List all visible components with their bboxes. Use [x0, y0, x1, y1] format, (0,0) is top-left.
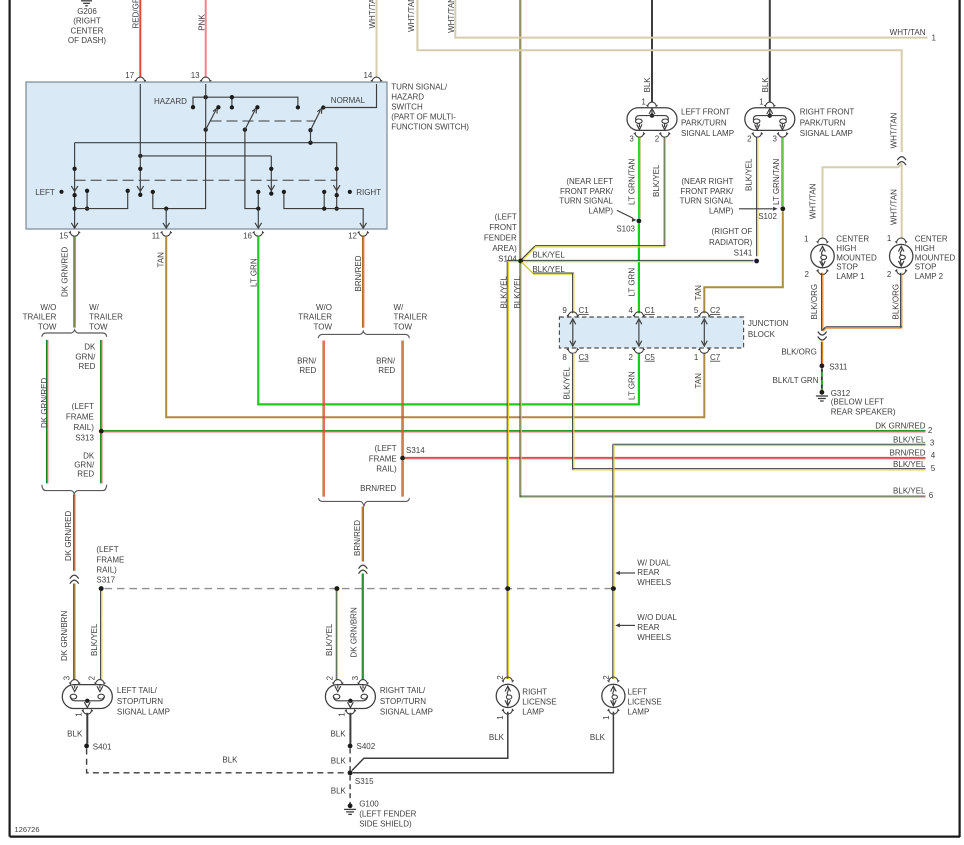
wire BLK/YEL S104 to S141	[523, 259, 754, 261]
wire LT GRN from S103 to junction block C1	[638, 223, 640, 313]
svg-text:LAMP 1: LAMP 1	[836, 272, 865, 281]
wire DK GRN/RED from pin 15	[73, 236, 75, 327]
svg-text:WHT/TAN: WHT/TAN	[890, 28, 926, 37]
wire BRN/RED combined lower	[361, 507, 363, 562]
svg-text:DK GRN/RED: DK GRN/RED	[40, 378, 49, 428]
normal contact wire to pin 14	[323, 84, 376, 108]
svg-text:TRAILER: TRAILER	[89, 313, 123, 322]
wire BRN/RED w/ trailer tow branch upper	[401, 341, 403, 457]
wire BLK/YEL S104 to junction block C1 pin9	[521, 261, 533, 273]
wire BRN/RED from pin 12	[362, 236, 364, 327]
svg-text:LEFT FRONT: LEFT FRONT	[681, 108, 730, 117]
svg-text:FRAME: FRAME	[369, 454, 397, 463]
svg-text:MOUNTED: MOUNTED	[915, 253, 956, 262]
wire BLK left tail to S401	[86, 713, 88, 744]
splice S311	[820, 363, 825, 368]
pin 17 pole column	[139, 84, 141, 195]
svg-text:BLK/YEL: BLK/YEL	[532, 251, 565, 260]
svg-text:JUNCTION: JUNCTION	[748, 319, 789, 328]
svg-text:LAMP: LAMP	[522, 707, 544, 716]
svg-text:GRN/: GRN/	[75, 352, 96, 361]
svg-text:14: 14	[363, 71, 372, 80]
svg-text:BLK/YEL: BLK/YEL	[652, 164, 661, 197]
svg-text:2: 2	[747, 134, 752, 143]
pin 15 pole column	[74, 143, 76, 229]
svg-text:(RIGHT: (RIGHT	[73, 17, 101, 26]
svg-text:RAIL): RAIL)	[73, 423, 94, 432]
wire BLK/ORG CHMSL1 down	[821, 273, 823, 331]
left contact group	[86, 191, 88, 209]
svg-text:5: 5	[694, 306, 699, 315]
ground G206	[81, 0, 92, 2]
wire DK GRN/RED combined lower	[73, 494, 75, 570]
svg-text:BLK: BLK	[761, 77, 770, 93]
svg-text:S313: S313	[75, 433, 94, 442]
wire PNK to pin 13	[205, 0, 207, 78]
w/o dual rear wheels option	[620, 624, 636, 626]
wire DK GRN/RED w/ trailer tow branch upper	[100, 340, 102, 429]
svg-text:1: 1	[759, 97, 764, 106]
svg-text:WHT/TAN: WHT/TAN	[809, 183, 818, 219]
svg-text:RAIL): RAIL)	[96, 565, 117, 574]
wire TAN from S102 to junction block C2	[704, 211, 783, 313]
hazard switch blade B	[243, 128, 247, 132]
svg-text:5: 5	[931, 464, 936, 473]
svg-text:(LEFT: (LEFT	[96, 545, 118, 554]
svg-text:FRONT: FRONT	[489, 223, 517, 232]
svg-text:9: 9	[562, 306, 567, 315]
svg-text:BLK: BLK	[330, 730, 346, 739]
svg-text:G100: G100	[359, 799, 379, 808]
svg-text:BRN/RED: BRN/RED	[360, 484, 396, 493]
svg-text:16: 16	[243, 232, 252, 241]
svg-text:PARK/TURN: PARK/TURN	[800, 118, 846, 127]
svg-text:BLK/YEL: BLK/YEL	[745, 158, 754, 191]
wire BLK/ORG to S311	[820, 342, 822, 364]
RIGHT TAIL/ connector arcs	[332, 680, 343, 684]
svg-text:S104: S104	[498, 255, 517, 264]
RIGHT FRONT bottom pins	[752, 133, 763, 137]
LEFT TAIL/ body	[62, 685, 112, 709]
wire BRN/RED w/ trailer tow branch lower	[401, 460, 403, 496]
svg-text:HIGH: HIGH	[836, 244, 856, 253]
LEFT FRONT bottom pins	[634, 133, 645, 137]
svg-text:C2: C2	[710, 306, 721, 315]
wire BLK right license to S315	[352, 712, 508, 771]
hazard bus	[193, 97, 298, 106]
switch row bus 1	[75, 142, 337, 144]
svg-text:1: 1	[804, 235, 809, 244]
wire BRN/RED circuit 4 to right edge	[405, 456, 926, 458]
svg-text:8: 8	[562, 353, 567, 362]
svg-text:PNK: PNK	[197, 14, 206, 31]
svg-text:BLK/YEL: BLK/YEL	[893, 436, 926, 445]
wire WHT/TAN to pin 14	[376, 0, 378, 78]
svg-text:SWITCH: SWITCH	[391, 102, 423, 111]
svg-text:SIGNAL LAMP: SIGNAL LAMP	[117, 708, 170, 717]
svg-text:TOW: TOW	[313, 322, 332, 331]
wire BLK left license to S315	[353, 712, 614, 773]
svg-text:TOW: TOW	[38, 322, 57, 331]
inline connector left rail	[70, 575, 79, 579]
svg-text:LT GRN: LT GRN	[628, 371, 637, 400]
inline connector WHT/TAN	[897, 157, 906, 161]
svg-text:SIDE SHIELD): SIDE SHIELD)	[359, 820, 412, 829]
svg-text:RADIATOR): RADIATOR)	[709, 238, 753, 247]
pin 16 contact group	[245, 130, 258, 209]
svg-text:BLK/YEL: BLK/YEL	[893, 486, 926, 495]
wire DK GRN/RED circuit 2 to right edge	[104, 430, 926, 432]
svg-text:DK GRN/RED: DK GRN/RED	[875, 421, 925, 430]
svg-text:BLK/YEL: BLK/YEL	[893, 460, 926, 469]
svg-text:1: 1	[694, 353, 699, 362]
wire BLK/YEL left lamp pin2 to S104	[663, 137, 665, 246]
svg-text:6: 6	[929, 491, 934, 500]
upper mechanical dashed link	[211, 120, 316, 122]
inline connector right rail	[359, 565, 368, 569]
LEFT TAIL/ connector arcs	[69, 680, 80, 684]
svg-text:WHEELS: WHEELS	[637, 633, 671, 642]
lower mechanical dashed link	[75, 179, 337, 181]
svg-text:W/: W/	[89, 303, 100, 312]
svg-text:LT GRN/TAN: LT GRN/TAN	[772, 159, 781, 205]
svg-text:DK GRN/RED: DK GRN/RED	[64, 511, 73, 561]
svg-text:BLOCK: BLOCK	[748, 330, 776, 339]
svg-text:RED/GRN: RED/GRN	[132, 0, 141, 29]
svg-text:WHT/TAN: WHT/TAN	[368, 0, 377, 29]
svg-text:DK GRN/BRN: DK GRN/BRN	[350, 607, 359, 657]
hazard switch blade A	[206, 110, 216, 130]
svg-text:S315: S315	[355, 777, 374, 786]
w/ dual rear wheels option	[620, 572, 636, 574]
svg-text:3: 3	[773, 134, 778, 143]
RIGHT contact marker	[348, 190, 352, 194]
svg-text:SIGNAL LAMP: SIGNAL LAMP	[800, 129, 853, 138]
svg-text:FRONT PARK/: FRONT PARK/	[560, 187, 614, 196]
wire WHT/TAN circuit 1	[455, 0, 927, 38]
wire BLK/ORG CHMSL2 down	[900, 273, 902, 328]
svg-text:BLK/YEL: BLK/YEL	[563, 366, 572, 399]
svg-text:REAR: REAR	[637, 568, 659, 577]
svg-text:TURN SIGNAL: TURN SIGNAL	[559, 197, 613, 206]
svg-text:(LEFT: (LEFT	[72, 402, 94, 411]
svg-text:STOP/TURN: STOP/TURN	[117, 697, 163, 706]
svg-text:1: 1	[932, 34, 937, 43]
svg-text:LEFT: LEFT	[35, 188, 55, 197]
wire LT GRN/TAN left lamp pin3 to S103	[638, 137, 640, 218]
svg-text:RIGHT: RIGHT	[522, 687, 547, 696]
svg-text:RED: RED	[299, 366, 316, 375]
wire BLK/YEL junction block C3 to circuit 5	[572, 353, 574, 470]
svg-text:15: 15	[59, 232, 68, 241]
svg-text:CENTER: CENTER	[71, 26, 104, 35]
svg-text:BRN/: BRN/	[376, 357, 396, 366]
svg-text:BLK: BLK	[222, 755, 238, 764]
svg-text:MOUNTED: MOUNTED	[836, 253, 877, 262]
svg-text:4: 4	[931, 451, 936, 460]
pin 13 pole wire	[205, 84, 207, 130]
wire BLK/YEL right lamp pin2 to S141	[756, 137, 758, 256]
svg-text:2: 2	[496, 675, 505, 680]
svg-text:BRN/: BRN/	[297, 357, 317, 366]
splice S102	[780, 206, 785, 211]
wire BLK/LT GRN S311 to G312	[821, 368, 823, 390]
wire BLK to RIGHT FRONT pin 1	[769, 0, 771, 102]
right contact group / pin 12	[284, 192, 363, 228]
wire RED/GRN to pin 17	[139, 0, 141, 78]
svg-text:SIGNAL LAMP: SIGNAL LAMP	[681, 129, 734, 138]
splice S401	[84, 744, 89, 749]
svg-text:S103: S103	[616, 224, 635, 233]
svg-text:TRAILER: TRAILER	[394, 313, 428, 322]
RIGHT TAIL/ body	[325, 685, 375, 709]
svg-text:TOW: TOW	[89, 322, 108, 331]
wire TAN from pin 11 to junction block C7	[166, 236, 704, 417]
wire BRN/RED w/o trailer tow branch	[322, 341, 324, 497]
svg-text:BLK/YEL: BLK/YEL	[500, 275, 509, 308]
wire BLK/YEL S317 to left tail lamp	[100, 591, 102, 680]
ground G100	[348, 803, 353, 808]
svg-text:BLK/YEL: BLK/YEL	[513, 275, 522, 308]
svg-text:12: 12	[348, 232, 357, 241]
pin 11 contact group	[153, 130, 206, 209]
svg-text:2: 2	[928, 426, 933, 435]
svg-text:NORMAL: NORMAL	[331, 96, 366, 105]
svg-text:4: 4	[629, 306, 634, 315]
wire BLK/YEL from top to S104	[519, 0, 521, 259]
svg-text:(PART OF MULTI-: (PART OF MULTI-	[391, 112, 456, 121]
switch row bus 2	[140, 155, 271, 157]
svg-text:3: 3	[930, 438, 935, 447]
svg-text:1: 1	[337, 712, 346, 717]
svg-text:HAZARD: HAZARD	[154, 97, 187, 106]
svg-text:2: 2	[805, 270, 810, 279]
svg-text:TOW: TOW	[394, 322, 413, 331]
dashed BLK S315 to G100	[349, 776, 351, 804]
svg-text:W/ DUAL: W/ DUAL	[637, 558, 671, 567]
svg-text:11: 11	[152, 232, 161, 241]
svg-text:RIGHT TAIL/: RIGHT TAIL/	[380, 686, 426, 695]
svg-text:OF DASH): OF DASH)	[68, 36, 107, 45]
wire BLK/YEL circuit 3 to left license lamp	[613, 443, 926, 445]
svg-text:LT GRN: LT GRN	[250, 258, 259, 287]
row1 blade column	[336, 143, 338, 209]
svg-text:BLK: BLK	[489, 733, 505, 742]
splice S103	[637, 219, 642, 224]
svg-text:REAR: REAR	[637, 623, 659, 632]
svg-text:LEFT TAIL/: LEFT TAIL/	[117, 686, 158, 695]
wire WHT/TAN to inline connector	[417, 0, 901, 152]
svg-text:BRN/RED: BRN/RED	[353, 520, 362, 556]
splice S317	[99, 586, 104, 591]
brace join pin12	[319, 498, 410, 506]
svg-text:3: 3	[629, 134, 634, 143]
hazard switch blade C	[308, 128, 312, 132]
svg-text:C1: C1	[645, 306, 656, 315]
svg-text:BLK: BLK	[590, 733, 606, 742]
svg-text:WHT/TAN: WHT/TAN	[890, 112, 899, 148]
ground G312	[820, 390, 825, 395]
svg-text:1: 1	[496, 715, 505, 720]
svg-text:S102: S102	[758, 212, 777, 221]
svg-text:2: 2	[88, 675, 97, 680]
svg-text:LAMP): LAMP)	[589, 206, 614, 215]
svg-text:HIGH: HIGH	[915, 244, 935, 253]
brace split pin12	[318, 331, 409, 338]
svg-text:(NEAR LEFT: (NEAR LEFT	[566, 177, 613, 186]
svg-text:BLK/YEL: BLK/YEL	[325, 623, 334, 656]
inline connector BLK/ORG	[818, 332, 827, 336]
svg-text:CENTER: CENTER	[915, 235, 948, 244]
svg-text:RIGHT: RIGHT	[356, 188, 381, 197]
svg-text:W/O: W/O	[316, 303, 332, 312]
row2 blade column	[270, 156, 272, 194]
overlay junction dots on option dashed wire	[99, 586, 104, 591]
svg-text:FRAME: FRAME	[96, 555, 124, 564]
svg-text:3: 3	[351, 675, 360, 680]
svg-text:BLK: BLK	[67, 730, 83, 739]
svg-text:FRONT PARK/: FRONT PARK/	[680, 187, 734, 196]
svg-text:RAIL): RAIL)	[376, 465, 397, 474]
svg-text:HAZARD: HAZARD	[391, 92, 424, 101]
svg-text:BLK/YEL: BLK/YEL	[90, 623, 99, 656]
wire BLK/YEL circuit 6 to right edge	[519, 264, 521, 498]
svg-text:S401: S401	[93, 743, 112, 752]
svg-text:TURN SIGNAL: TURN SIGNAL	[680, 197, 734, 206]
svg-text:SIGNAL LAMP: SIGNAL LAMP	[380, 708, 433, 717]
svg-text:TAN: TAN	[156, 252, 165, 268]
svg-text:LICENSE: LICENSE	[628, 697, 662, 706]
svg-text:2: 2	[602, 675, 611, 680]
svg-text:(NEAR RIGHT: (NEAR RIGHT	[681, 177, 733, 186]
svg-text:STOP/TURN: STOP/TURN	[380, 697, 426, 706]
svg-text:AREA): AREA)	[492, 244, 517, 253]
wire BLK/YEL to right tail lamp	[335, 591, 337, 680]
svg-text:W/O: W/O	[40, 303, 56, 312]
svg-text:WHEELS: WHEELS	[637, 578, 671, 587]
svg-text:RED: RED	[378, 366, 395, 375]
svg-text:FRAME: FRAME	[66, 413, 94, 422]
dashed BLK S402 to S315	[349, 749, 351, 771]
brace split pin15	[42, 330, 107, 337]
brace join pin15	[42, 485, 107, 494]
wire LT GRN/TAN right lamp pin3 to S102	[781, 137, 783, 206]
svg-text:LAMP): LAMP)	[709, 206, 734, 215]
svg-text:DK: DK	[83, 452, 95, 461]
svg-text:(LEFT: (LEFT	[495, 212, 517, 221]
svg-text:S141: S141	[734, 248, 753, 257]
svg-text:STOP: STOP	[836, 263, 858, 272]
svg-text:LT GRN: LT GRN	[628, 268, 637, 297]
svg-text:GRN/: GRN/	[74, 461, 95, 470]
splice S402	[348, 744, 353, 749]
junction block	[559, 317, 743, 348]
wire WHT/TAN connector to CHMSL2	[901, 164, 903, 240]
svg-text:17: 17	[125, 71, 134, 80]
svg-text:TAN: TAN	[694, 373, 703, 389]
svg-text:C5: C5	[645, 353, 656, 362]
svg-text:BLK/ORG: BLK/ORG	[810, 284, 819, 320]
wire BLK/YEL S104 to right license lamp	[507, 259, 519, 261]
splice S315	[348, 770, 353, 775]
svg-text:BLK: BLK	[331, 756, 347, 765]
svg-text:TRAILER: TRAILER	[23, 313, 57, 322]
junction block pass-through at x=572.8	[572, 321, 574, 345]
svg-text:REAR SPEAKER): REAR SPEAKER)	[831, 408, 896, 417]
LEFT FRONT body	[627, 108, 677, 131]
wire BLK right tail to S402	[349, 713, 351, 744]
svg-text:2: 2	[629, 353, 634, 362]
svg-text:(LEFT FENDER: (LEFT FENDER	[359, 810, 416, 819]
svg-text:BRN/RED: BRN/RED	[354, 255, 363, 291]
svg-text:BLK/ORG: BLK/ORG	[781, 348, 817, 357]
svg-text:FUNCTION SWITCH): FUNCTION SWITCH)	[391, 122, 469, 131]
svg-text:TAN: TAN	[694, 285, 703, 301]
svg-text:DK GRN/RED: DK GRN/RED	[60, 247, 69, 297]
svg-text:S311: S311	[829, 362, 848, 371]
turn signal/hazard switch box	[26, 82, 387, 229]
svg-text:TURN SIGNAL/: TURN SIGNAL/	[391, 82, 448, 91]
svg-text:LICENSE: LICENSE	[522, 697, 556, 706]
svg-text:BLK/LT GRN: BLK/LT GRN	[773, 376, 819, 385]
svg-text:LAMP: LAMP	[628, 707, 650, 716]
svg-text:(LEFT: (LEFT	[374, 444, 396, 453]
svg-text:126726: 126726	[15, 825, 40, 834]
svg-text:C7: C7	[710, 353, 721, 362]
svg-text:RIGHT FRONT: RIGHT FRONT	[800, 108, 855, 117]
svg-text:BLK: BLK	[331, 787, 347, 796]
svg-text:(RIGHT OF: (RIGHT OF	[712, 227, 753, 236]
wire WHT/TAN branch to CHMSL1	[823, 164, 902, 240]
junction block pass-through at x=638.9	[638, 321, 640, 345]
svg-text:2: 2	[655, 134, 660, 143]
svg-text:S317: S317	[96, 576, 115, 585]
wire DK GRN/BRN to right tail lamp	[361, 574, 363, 680]
svg-text:STOP: STOP	[915, 263, 937, 272]
svg-text:FENDER: FENDER	[484, 234, 517, 243]
svg-text:1: 1	[641, 97, 646, 106]
svg-text:WHT/TAN: WHT/TAN	[447, 0, 456, 33]
svg-text:C3: C3	[579, 353, 590, 362]
svg-text:1: 1	[602, 715, 611, 720]
svg-text:PARK/TURN: PARK/TURN	[681, 118, 727, 127]
wire DK GRN/RED w/ trailer tow branch lower	[100, 433, 102, 483]
LEFT LICENSE	[608, 677, 620, 682]
svg-text:2: 2	[887, 270, 892, 279]
wire BLK to LEFT FRONT pin 1	[651, 0, 653, 102]
svg-text:W/O DUAL: W/O DUAL	[637, 613, 677, 622]
svg-text:RED: RED	[79, 362, 96, 371]
svg-text:DK GRN/BRN: DK GRN/BRN	[60, 611, 69, 661]
dashed option wire S317 to license lamps	[105, 588, 614, 590]
svg-text:WHT/TAN: WHT/TAN	[407, 0, 416, 32]
wire DK GRN/RED w/o trailer tow branch	[46, 340, 48, 484]
svg-text:S402: S402	[357, 742, 376, 751]
svg-text:W/: W/	[394, 303, 405, 312]
svg-text:(BELOW LEFT: (BELOW LEFT	[831, 398, 884, 407]
svg-text:BLK/ORG: BLK/ORG	[892, 284, 901, 320]
svg-text:S314: S314	[406, 446, 425, 455]
svg-text:2: 2	[326, 675, 335, 680]
wire LT GRN from pin 16 to junction block C5	[258, 236, 639, 404]
svg-text:CENTER: CENTER	[836, 235, 869, 244]
svg-text:LAMP 2: LAMP 2	[915, 272, 944, 281]
svg-text:1: 1	[887, 234, 892, 243]
svg-text:1: 1	[74, 712, 83, 717]
svg-text:LEFT: LEFT	[628, 687, 648, 696]
svg-text:G206: G206	[77, 7, 97, 16]
svg-text:3: 3	[63, 675, 72, 680]
